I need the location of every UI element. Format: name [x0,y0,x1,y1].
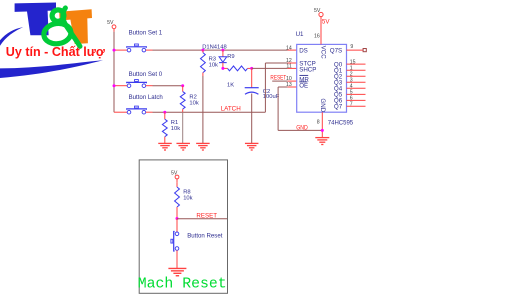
label U1 [296,31,304,38]
logo swoosh bottom stroke [0,60,103,78]
resistor R8 [175,187,180,219]
label R3 [209,56,218,68]
node junction R2/row2 [181,84,184,87]
net label RESET (at MR) [270,75,286,82]
svg-text:DS: DS [299,47,308,54]
wire: LATCH riser to STCP [265,63,287,112]
ground (R3) [196,143,210,150]
wire: rail to button Set 1 [114,49,127,51]
capacitor C2 [245,88,259,95]
svg-text:5V: 5V [171,171,178,177]
node junction D1/row1 [221,49,224,52]
svg-text:Mach Reset: Mach Reset [138,277,227,293]
pin name STCP [299,60,316,67]
node junction GND [321,129,324,132]
button Reset [171,232,179,252]
pin number 8 [317,120,320,126]
pin names Q0-Q7 [334,61,343,110]
label Button Set 0 [129,71,163,78]
IC U1 74HC595 body [297,44,347,112]
svg-text:Uy tín - Chất lượ: Uy tín - Chất lượ [6,44,106,59]
svg-text:14: 14 [286,45,292,51]
button Latch [127,106,147,114]
svg-text:5V: 5V [107,20,114,26]
resistor R2 [180,86,185,113]
pin stub U1 pin14 DS [288,49,297,51]
label R8 [183,190,192,202]
svg-text:5V: 5V [314,8,321,14]
power symbol 5V (reset) [171,171,179,183]
ground (R2) [176,143,190,150]
wire: left 5V rail vertical [113,32,115,112]
wire: row2 button Set 0 to R2 [146,85,183,87]
svg-text:RESET: RESET [270,75,286,82]
pin stub U1 pin13 OE [288,86,297,88]
power symbol 5V (U1 VCC) [314,8,323,20]
pin number 16 [314,34,320,40]
svg-text:7: 7 [350,102,353,108]
pin number 10 [286,76,292,82]
svg-text:Button Set 1: Button Set 1 [129,30,163,37]
ground (reset) [168,268,186,275]
svg-text:GND: GND [319,98,326,112]
button Set 0 [127,80,147,88]
subcircuit box Mach Reset [139,160,227,293]
pin number 12 [286,58,292,64]
svg-text:U1: U1 [296,31,304,38]
pin name SHCP [299,66,316,73]
svg-text:GND: GND [296,124,308,131]
pin number 14 [286,45,292,51]
button Set 1 [127,44,147,52]
logo blue letter T [15,3,56,36]
wire: node to C2 [251,68,253,87]
pin U1 pin8 GND wire [321,112,323,137]
label R9 [227,54,234,60]
node junction R9/C2/SHCP [250,67,253,70]
ground (C2) [245,143,259,150]
svg-text:RESET: RESET [196,212,217,219]
node junction RESET [176,217,179,220]
wire: row1 button Set 1 to U1 DS [146,49,288,51]
label Button Set 1 [129,30,163,37]
svg-text:16: 16 [314,34,320,40]
pin U1 pin9 Q7S line [347,49,363,51]
svg-text:Q7: Q7 [334,104,343,111]
svg-text:Button Latch: Button Latch [129,94,163,101]
wire: R3 to ground [202,76,204,143]
pin name MR (overbar) [299,75,309,83]
wire: OE to GND net [278,87,322,130]
node junction rail/row2 [113,84,116,87]
svg-text:Button Reset: Button Reset [187,233,223,240]
node junction R3/row1 [201,49,204,52]
net label GND [296,124,308,131]
wire: MR pin stub (RESET net) [272,80,297,82]
pins U1 Q0-Q7 lines [347,64,366,106]
resistor R3 [201,50,206,76]
svg-text:9: 9 [350,44,353,50]
svg-text:R9: R9 [227,54,234,60]
pin number 13 [286,82,292,88]
svg-text:SHCP: SHCP [299,66,316,73]
svg-text:OE: OE [299,83,308,90]
wire: C2 to ground [251,94,253,144]
net label LATCH [221,105,242,112]
node junction D1/R9 [221,67,224,70]
pin number 9 [350,44,353,50]
logo swoosh upper arc [0,27,23,46]
pin number 11 [286,64,291,70]
logo green ampersand [43,8,80,47]
wire: node to button Reset [176,219,178,232]
wire: RESET net stub [177,218,227,220]
net label 5V (red) [322,18,330,25]
logo red slogan text [6,44,106,59]
svg-text:13: 13 [286,82,292,88]
svg-text:1K: 1K [227,83,234,89]
label R1 [171,120,180,132]
wire: R2 to ground (crosses LATCH row) [182,112,184,143]
svg-text:10k: 10k [209,62,218,68]
resistor R1 [162,112,167,143]
svg-text:10k: 10k [171,126,180,132]
power symbol 5V (left rail) [107,20,116,32]
svg-text:D1N4148: D1N4148 [202,44,227,50]
pin numbers 15,1-7 [350,59,356,107]
ground (U1 GND) [315,138,329,145]
ground (R1) [158,143,172,150]
svg-text:4: 4 [350,84,353,90]
label Button Latch [129,94,163,101]
svg-text:10k: 10k [189,101,198,107]
pin stub U1 pin12 STCP [288,62,297,64]
terminal square (Q7S) [363,49,366,52]
label Mach Reset [138,277,227,293]
logo orange letter T [59,9,92,44]
svg-text:Q7S: Q7S [330,47,342,54]
svg-text:11: 11 [286,64,291,70]
wire: rail to button Set 0 [114,85,127,87]
label C2 [263,89,280,100]
svg-text:VCC: VCC [319,46,326,60]
pin name VCC (rotated) [319,46,326,60]
pin stub U1 pin11 SHCP [288,67,297,69]
svg-text:Button Set 0: Button Set 0 [129,71,163,78]
svg-text:10k: 10k [183,196,192,202]
pin name Q7S [330,47,342,54]
node junction rail/row1 [113,49,116,52]
label D1N4148 [202,44,227,50]
diode D1 (1N4148) [219,50,227,68]
label R2 [189,95,198,107]
pin name GND (rotated) [319,98,326,112]
wire: rail to button Latch [114,111,127,113]
node junction R1/LATCH row [163,111,166,114]
label Button Reset [187,233,223,240]
wire: 5V to R8 [176,182,178,187]
pin U1 pin16 VCC wire [320,20,322,45]
svg-text:2: 2 [350,71,353,77]
svg-text:74HC595: 74HC595 [328,120,354,126]
wire: R9 node to SHCP [252,67,288,69]
svg-text:LATCH: LATCH [221,105,242,112]
wire: button Reset to ground [176,250,178,268]
svg-text:8: 8 [317,120,320,126]
svg-text:15: 15 [350,59,356,65]
wire: LATCH row to STCP riser [146,111,266,113]
label 1K [227,83,234,89]
net label RESET (box) [196,212,217,219]
label 74HC595 [328,120,354,126]
resistor R9 [223,66,252,71]
pin name OE (overbar) [299,82,308,90]
pin name DS [299,47,308,54]
svg-text:5V: 5V [322,18,330,25]
